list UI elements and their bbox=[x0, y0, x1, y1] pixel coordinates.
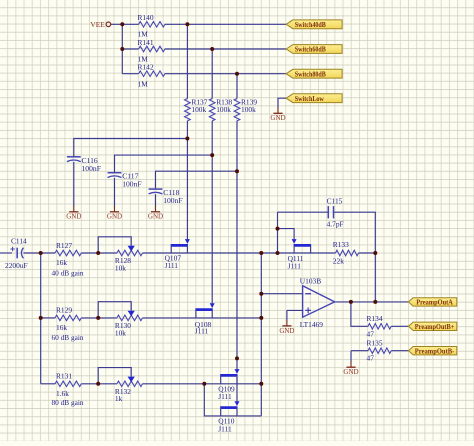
transistor Q111 J111 bbox=[292, 239, 312, 253]
svg-text:100k: 100k bbox=[241, 105, 256, 114]
svg-text:1M: 1M bbox=[138, 79, 149, 88]
svg-text:4.7pF: 4.7pF bbox=[327, 220, 344, 229]
svg-text:R140: R140 bbox=[138, 13, 154, 22]
junction output/riser bbox=[373, 300, 377, 304]
svg-text:C114: C114 bbox=[11, 236, 27, 245]
resistor R134 47 bbox=[367, 314, 392, 338]
ground below SwitchLow bbox=[270, 107, 285, 122]
wire R139 gate line (Switch80dB net down to Q109/Q110 gates) bbox=[236, 74, 238, 99]
wire C114 junction down-bus bbox=[40, 253, 42, 384]
junction R129/R130 bbox=[96, 316, 100, 320]
wire Q111 gate bbox=[278, 229, 295, 240]
power port VEE bbox=[90, 20, 110, 29]
potentiometer R128 10k bbox=[98, 237, 142, 273]
wire R140 row to Switch40dB bbox=[122, 23, 138, 25]
port Switch80dB bbox=[286, 69, 342, 78]
svg-text:100nF: 100nF bbox=[163, 196, 182, 205]
svg-text:J111: J111 bbox=[165, 261, 179, 270]
transistor Q109 J111 bbox=[220, 369, 239, 384]
junction row3/Q110 branch bbox=[202, 382, 206, 386]
svg-text:R127: R127 bbox=[56, 241, 72, 250]
svg-text:PreampOutA: PreampOutA bbox=[416, 299, 453, 307]
svg-text:Switch80dB: Switch80dB bbox=[295, 70, 326, 78]
svg-text:10k: 10k bbox=[115, 328, 126, 337]
svg-text:Switch60dB: Switch60dB bbox=[295, 46, 326, 54]
port SwitchLow bbox=[286, 94, 342, 103]
port PreampOutA bbox=[409, 298, 457, 307]
svg-text:GND: GND bbox=[270, 114, 285, 122]
junction row3/bus bbox=[259, 382, 263, 386]
junction VEE/R141 bbox=[120, 47, 124, 51]
wire op-amp left bus bbox=[260, 253, 262, 416]
svg-text:22k: 22k bbox=[333, 257, 344, 266]
junction gate line Q109 bbox=[235, 356, 239, 360]
transistor Q110 J111 bbox=[220, 401, 239, 416]
resistor R133 22k bbox=[333, 240, 359, 266]
port Switch60dB bbox=[286, 45, 342, 54]
port PreampOutB+ bbox=[409, 322, 457, 331]
transistor Q107 J111 bbox=[171, 239, 190, 253]
svg-text:R131: R131 bbox=[56, 372, 72, 381]
junction C114/row1 bbox=[39, 251, 43, 255]
svg-text:R129: R129 bbox=[56, 306, 72, 315]
wire VEE feed and R140-R142 left bus bbox=[111, 23, 122, 25]
junction R133/output riser bbox=[373, 251, 377, 255]
junction R131/R132 bbox=[96, 382, 100, 386]
transistor Q108 J111 bbox=[195, 303, 214, 318]
svg-text:J111: J111 bbox=[218, 424, 232, 433]
svg-text:R135: R135 bbox=[367, 339, 383, 348]
svg-text:GND: GND bbox=[107, 213, 122, 221]
wire R141 row to Switch60dB bbox=[122, 48, 138, 50]
wire op-amp output to PreampOutA bbox=[335, 301, 409, 303]
potentiometer R130 10k bbox=[98, 302, 142, 338]
wire op-amp inverting input bbox=[261, 293, 302, 295]
junction output/R134 branch bbox=[349, 300, 353, 304]
svg-text:GND: GND bbox=[279, 327, 294, 335]
svg-text:47: 47 bbox=[367, 329, 375, 338]
resistor R142 1M bbox=[138, 63, 165, 89]
junction R142/R139 bbox=[235, 72, 239, 76]
svg-text:PreampOutB+: PreampOutB+ bbox=[415, 323, 455, 331]
resistor R137 100k bbox=[185, 97, 208, 121]
svg-text:R134: R134 bbox=[367, 314, 383, 323]
wire R138 gate line (Switch60dB net down to Q108 gate) bbox=[211, 49, 213, 99]
svg-text:C115: C115 bbox=[327, 197, 343, 206]
resistor R135 47 bbox=[367, 339, 392, 363]
junction bus/row2 bbox=[39, 316, 43, 320]
svg-text:PreampOutB-: PreampOutB- bbox=[415, 347, 455, 355]
svg-text:100nF: 100nF bbox=[82, 164, 101, 173]
svg-text:47: 47 bbox=[367, 354, 375, 363]
junction inverting input bbox=[259, 292, 263, 296]
svg-text:J111: J111 bbox=[288, 262, 302, 271]
svg-text:VEE: VEE bbox=[90, 20, 105, 29]
svg-text:1k: 1k bbox=[115, 394, 123, 403]
op-amp U103B LT1469 bbox=[300, 277, 335, 330]
ground below C117 bbox=[107, 206, 122, 221]
junction R137/C116 bbox=[185, 137, 189, 141]
resistor R139 100k bbox=[234, 97, 257, 121]
wire R135 to PreampOutB- bbox=[391, 350, 408, 352]
wire C118 top to R139 bbox=[156, 171, 238, 189]
svg-text:LT1469: LT1469 bbox=[300, 320, 323, 329]
svg-text:GND: GND bbox=[66, 213, 81, 221]
svg-text:1.6k: 1.6k bbox=[56, 389, 69, 398]
capacitor C118 100nF bbox=[149, 188, 183, 205]
junction row2/bus bbox=[259, 316, 263, 320]
junction R141/R138 bbox=[210, 47, 214, 51]
wire R137 gate line (Switch40dB net down to Q107 gate) bbox=[186, 24, 188, 98]
svg-text:R133: R133 bbox=[333, 240, 349, 249]
ground below C116 bbox=[66, 206, 81, 221]
svg-text:100k: 100k bbox=[216, 105, 231, 114]
resistor R138 100k bbox=[209, 97, 232, 121]
wire SwitchLow to GND bbox=[278, 98, 286, 107]
wire Q110 row bbox=[204, 384, 261, 416]
svg-text:100k: 100k bbox=[191, 105, 206, 114]
svg-text:R142: R142 bbox=[138, 63, 154, 72]
ground below R135 bbox=[343, 361, 358, 376]
wire R135 left to GND stub bbox=[351, 350, 368, 352]
resistor R127 16k bbox=[55, 241, 81, 267]
svg-text:40 dB gain: 40 dB gain bbox=[52, 268, 84, 277]
resistor R129 16k bbox=[55, 306, 81, 332]
wire C117 top to R138 bbox=[115, 155, 213, 173]
svg-text:16k: 16k bbox=[56, 323, 67, 332]
svg-text:2200uF: 2200uF bbox=[5, 261, 28, 270]
capacitor C115 4.7pF bbox=[327, 197, 344, 229]
capacitor C117 100nF bbox=[108, 172, 142, 189]
junction R127/R128 bbox=[96, 251, 100, 255]
svg-text:J111: J111 bbox=[218, 392, 232, 401]
wire R142 row to Switch80dB bbox=[122, 73, 138, 75]
wire output branch to R134 bbox=[351, 302, 368, 326]
wire C115 row bbox=[278, 211, 329, 213]
svg-text:Switch40dB: Switch40dB bbox=[295, 21, 326, 29]
ground at op-amp non-inverting input bbox=[279, 320, 294, 335]
svg-text:R141: R141 bbox=[138, 38, 154, 47]
svg-text:U103B: U103B bbox=[300, 277, 321, 286]
capacitor C114 2200uF polarized bbox=[5, 236, 28, 270]
svg-text:60 dB gain: 60 dB gain bbox=[52, 333, 84, 342]
potentiometer R132 1k bbox=[98, 368, 142, 404]
wire feedback riser to C115 bbox=[277, 212, 279, 253]
wire gain row 2 (R129/R130 to Q108 to op-amp bus) bbox=[41, 317, 55, 319]
svg-text:10k: 10k bbox=[115, 263, 126, 272]
resistor R140 1M bbox=[138, 13, 165, 39]
svg-text:100nF: 100nF bbox=[122, 180, 141, 189]
svg-text:J111: J111 bbox=[195, 327, 209, 336]
wire C118 bottom stub bbox=[155, 194, 157, 206]
ground below C118 bbox=[148, 206, 163, 221]
junction R140/R137 bbox=[185, 22, 189, 26]
wire C117 bottom stub bbox=[114, 178, 116, 206]
junction VEE/R140 bbox=[120, 22, 124, 26]
junction row1/feedback riser bbox=[276, 251, 280, 255]
wire C116 top to R137 bbox=[74, 139, 188, 157]
svg-text:16k: 16k bbox=[56, 258, 67, 267]
wire R134 to PreampOutB+ bbox=[391, 325, 408, 327]
capacitor C116 100nF bbox=[67, 156, 101, 173]
resistor R141 1M bbox=[138, 38, 165, 64]
junction R139/C118 bbox=[235, 169, 239, 173]
port PreampOutB- bbox=[409, 347, 457, 356]
junction row1/op-amp bus bbox=[259, 251, 263, 255]
wire gain row 1 (C114 to R133/feedback bus) bbox=[0, 252, 12, 254]
wire gain row 3 (R131/R132 to Q109 row) bbox=[41, 383, 55, 385]
svg-text:SwitchLow: SwitchLow bbox=[295, 95, 325, 103]
wire op-amp non-inverting input bbox=[287, 309, 303, 311]
junction R138/C117 bbox=[210, 153, 214, 157]
svg-text:80 dB gain: 80 dB gain bbox=[52, 398, 84, 407]
junction C115/Q111 gate bbox=[276, 227, 280, 231]
wire C116 bottom stub bbox=[73, 162, 75, 206]
svg-text:GND: GND bbox=[343, 368, 358, 376]
resistor R131 1.6k bbox=[55, 372, 81, 398]
svg-text:GND: GND bbox=[148, 213, 163, 221]
port Switch40dB bbox=[286, 20, 342, 29]
